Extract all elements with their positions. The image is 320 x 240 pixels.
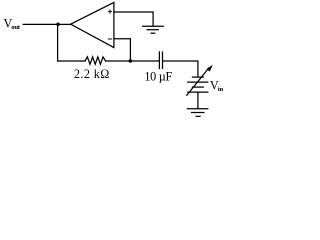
op-amp minus sign: [108, 38, 112, 40]
svg-text:10 µF: 10 µF: [144, 69, 172, 83]
wire capacitor to source branch: [163, 61, 198, 77]
wire Vout to op-amp output: [23, 23, 70, 25]
wire bottom rail left segment: [58, 60, 85, 62]
svg-text:in: in: [218, 86, 224, 93]
ground (top, at op-amp + input): [143, 26, 164, 33]
ground (bottom, under source): [187, 109, 207, 117]
capacitor C 10uF plates: [159, 52, 162, 69]
wire inverting input branch: [114, 39, 130, 61]
op-amp U1 triangle: [71, 2, 114, 47]
svg-text:2.2 kΩ: 2.2 kΩ: [74, 67, 110, 81]
battery Vin plates (variable source): [188, 77, 208, 92]
op-amp plus sign: [108, 10, 112, 14]
node junction dot at Vout feedback tap: [56, 23, 60, 27]
wire rail resistor to capacitor: [106, 60, 159, 62]
variable-source arrowhead: [207, 65, 213, 72]
variable-source arrow shaft: [187, 68, 209, 95]
node junction dot inverting branch: [129, 59, 133, 63]
wire feedback vertical drop: [57, 24, 59, 61]
wire non-inverting input to ground: [114, 12, 153, 26]
svg-text:out: out: [11, 24, 20, 31]
wire battery to bottom ground: [197, 92, 199, 108]
resistor R 2.2 kOhm zigzag: [85, 57, 106, 64]
